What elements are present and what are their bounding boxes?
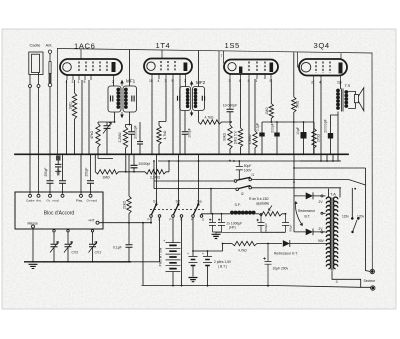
wire I2 rail right xyxy=(252,187,342,189)
tube V3 top lead riser xyxy=(223,51,226,63)
wire bottom rail xyxy=(142,285,371,287)
capacitor C8 body xyxy=(274,133,279,137)
svg-text:4: 4 xyxy=(248,79,250,83)
wire CV0 drop xyxy=(53,232,55,244)
capacitor C14 1000uF xyxy=(218,214,225,232)
tube V2 anode bar xyxy=(184,63,188,72)
wire selector drop xyxy=(351,188,353,218)
tube V1 grid electrodes xyxy=(79,62,107,73)
node dots on chassis bus xyxy=(57,153,59,155)
switch I1 mains pole 1 xyxy=(234,180,237,183)
svg-text:5: 5 xyxy=(84,80,86,84)
tube V3 diode plate bar xyxy=(239,67,242,74)
wire cadre to bloc terminals xyxy=(30,88,39,194)
svg-text:90V: 90V xyxy=(318,239,325,243)
coil TA secondary winding xyxy=(333,197,337,269)
svg-text:I1: I1 xyxy=(252,173,255,177)
svg-text:4,7kΩ: 4,7kΩ xyxy=(163,130,167,139)
wire bus drop x81 xyxy=(80,154,82,194)
loop antenna Cadre xyxy=(29,52,43,75)
capacitor C1 250pF (ant) xyxy=(47,181,54,184)
node TA tap upper xyxy=(321,195,323,197)
svg-text:100pF: 100pF xyxy=(188,128,192,138)
wire D3 to TA xyxy=(290,243,331,245)
capacitor C2 xyxy=(131,125,133,132)
MF2 tuning arrow bottom xyxy=(191,111,193,115)
capacitor C16 0.1uF xyxy=(128,223,130,245)
tube V3 1S5 envelope xyxy=(224,60,278,75)
wire V2 grid elbow xyxy=(159,122,166,126)
svg-text:1MΩ T.V.: 1MΩ T.V. xyxy=(233,131,237,145)
svg-text:mod.: mod. xyxy=(53,199,60,203)
node cadre lead junction circles xyxy=(29,85,32,88)
svg-text:Piles HT 90v: Piles HT 90v xyxy=(159,247,163,266)
tube V4 top lead riser xyxy=(298,52,300,67)
speaker LS driver xyxy=(354,95,358,103)
capacitor C10 body xyxy=(328,133,333,139)
node dots on mains rail xyxy=(210,188,212,190)
tube V2 filament circle xyxy=(147,62,155,70)
plus mark C13 xyxy=(209,219,211,221)
node TA tap lower xyxy=(321,231,323,233)
svg-text:100V: 100V xyxy=(244,168,253,172)
wire V4 pin drops xyxy=(314,80,321,161)
svg-text:+: + xyxy=(187,252,189,256)
node TA tap mid xyxy=(321,212,323,214)
svg-text:10μF: 10μF xyxy=(296,127,300,135)
TS core lines xyxy=(342,89,344,112)
wire MF2 primary bottom xyxy=(184,111,186,132)
wire C12 ground tie xyxy=(261,231,286,233)
coil MF2 secondary winding xyxy=(194,88,198,92)
svg-text:+: + xyxy=(202,252,204,256)
tube V4 filament circle xyxy=(301,62,311,72)
diode D2 BT lower xyxy=(294,229,321,236)
wire MF1 secondary riser to bus xyxy=(129,50,131,86)
capacitor C3 50pF xyxy=(59,181,66,184)
node secteur terminal bottom xyxy=(371,286,375,290)
svg-text:Plaq.: Plaq. xyxy=(76,199,83,203)
wire V3 pin1 drop xyxy=(254,79,256,131)
svg-text:1MΩ: 1MΩ xyxy=(69,102,73,110)
svg-text:1MΩ: 1MΩ xyxy=(265,107,269,115)
wire V4 anode to TS xyxy=(340,80,342,89)
tube V4 pin stubs xyxy=(314,76,341,81)
svg-text:33kΩ: 33kΩ xyxy=(223,133,227,141)
wire chassis bus xyxy=(15,153,348,155)
svg-text:T.A: T.A xyxy=(330,192,336,197)
svg-text:0: 0 xyxy=(336,280,338,284)
wire screen feed drop x219 xyxy=(218,51,220,155)
svg-text:2: 2 xyxy=(184,79,186,83)
svg-text:2,1MΩ: 2,1MΩ xyxy=(150,175,161,179)
svg-text:( B.T.): ( B.T.) xyxy=(218,265,227,269)
resistor R15 1M xyxy=(95,170,145,174)
capacitor C5 100pF xyxy=(182,132,189,135)
capacitor C13 1000uF xyxy=(209,214,216,232)
svg-text:5MΩ: 5MΩ xyxy=(296,100,300,108)
wire +HT rail xyxy=(99,222,152,224)
svg-text:P: P xyxy=(170,218,172,222)
coil MF1 secondary winding xyxy=(124,88,128,92)
svg-text:0,1μF: 0,1μF xyxy=(113,246,122,250)
tube V3 anode bar xyxy=(270,63,274,73)
ground symbol piles xyxy=(189,278,198,282)
wire TS bottom drop xyxy=(337,112,339,162)
wire left bus drop xyxy=(57,49,59,155)
switch Sa xyxy=(192,215,195,218)
svg-text:1AC6: 1AC6 xyxy=(74,42,95,51)
wire masse to ground bus xyxy=(32,228,34,262)
svg-text:22kΩ: 22kΩ xyxy=(122,201,126,209)
svg-text:CV1: CV1 xyxy=(95,251,102,255)
svg-text:Redresseur: Redresseur xyxy=(298,209,316,213)
wire bus drop to C1 xyxy=(49,179,51,181)
wire V3 pin6 drop xyxy=(240,79,242,128)
svg-text:6: 6 xyxy=(239,79,241,83)
svg-text:4,7kΩ: 4,7kΩ xyxy=(238,249,247,253)
wire S2-P to battery xyxy=(172,217,174,243)
svg-text:20000pF: 20000pF xyxy=(324,119,328,132)
tube V1 anode bar xyxy=(112,62,116,72)
coil MF2 primary winding xyxy=(186,88,190,92)
capacitor MF1 primary trim xyxy=(111,96,113,102)
wire SF rail left xyxy=(211,213,230,215)
wire bridge left rail xyxy=(293,182,295,232)
resistor R2 47k xyxy=(96,122,100,154)
coil MF1 primary winding xyxy=(116,88,120,92)
wire I1 rail left xyxy=(154,180,234,182)
resistor R14 2.1M xyxy=(145,170,169,174)
svg-text:7: 7 xyxy=(221,54,223,58)
wire HT rail y168 xyxy=(294,167,366,169)
wire Sa riser xyxy=(198,154,200,204)
wire Sa-P drop xyxy=(192,217,194,251)
svg-text:CV2: CV2 xyxy=(72,251,79,255)
wire cadre leads xyxy=(30,73,39,85)
resistor R12 4.7k xyxy=(232,241,282,245)
resistor R11 270 xyxy=(312,122,316,154)
svg-text:50μF: 50μF xyxy=(289,224,293,231)
svg-text:S: S xyxy=(202,218,204,222)
svg-text:270Ω: 270Ω xyxy=(317,133,321,142)
svg-text:P: P xyxy=(148,218,150,222)
tube V2 pin stubs xyxy=(152,74,186,79)
wire HT drop right xyxy=(366,168,371,272)
MF1 tuning arrow top xyxy=(121,82,123,87)
transformer MF1 secondary box xyxy=(123,86,137,112)
node CV drop circles xyxy=(53,230,55,232)
wire V3 pin4 drop xyxy=(248,79,250,154)
node dots misc xyxy=(125,171,127,173)
svg-text:Ant.: Ant. xyxy=(46,43,53,48)
svg-text:+HT: +HT xyxy=(88,219,96,223)
wire +HT drop left xyxy=(142,223,144,286)
tube V4 grid electrodes xyxy=(316,62,330,74)
svg-text:Masse: Masse xyxy=(28,222,38,226)
wire stub arrow xyxy=(98,154,113,158)
wire TA primary riser xyxy=(329,188,341,198)
svg-text:Bloc d'Accord: Bloc d'Accord xyxy=(44,211,75,217)
capacitor C10 20000pF xyxy=(331,115,339,154)
wire MF1 secondary bottom xyxy=(126,112,132,125)
transformer MF2 secondary box xyxy=(193,87,205,111)
svg-text:MF2: MF2 xyxy=(196,80,206,85)
wire bridge arc indicator xyxy=(295,202,303,226)
wire ground bus xyxy=(24,261,131,263)
wire ant down to C1 xyxy=(49,87,51,181)
svg-text:Ant.: Ant. xyxy=(36,199,42,203)
svg-text:2: 2 xyxy=(112,80,114,84)
wire C7 drop xyxy=(261,122,263,133)
capacitor CV0 trimmer xyxy=(51,244,58,247)
svg-text:Gr-mod: Gr-mod xyxy=(87,199,98,203)
transformer MF1 primary box xyxy=(108,86,121,112)
svg-text:ajustable: ajustable xyxy=(256,202,269,206)
switch S1 xyxy=(150,215,153,218)
capacitor C15 10uF 200v xyxy=(265,244,272,286)
svg-text:3: 3 xyxy=(229,79,231,83)
wire coupling rail y122 xyxy=(262,121,314,123)
wire V2 pin drops xyxy=(152,79,180,154)
wire V1 pin drops xyxy=(67,80,90,154)
plus mark C14 xyxy=(218,219,220,221)
wire TS to speaker top xyxy=(348,91,355,94)
wire MF2 secondary bottom xyxy=(198,111,200,123)
wire bus drop x294 below bus xyxy=(293,154,295,181)
wire S1-G drop xyxy=(131,217,160,261)
capacitor MF1 secondary trim xyxy=(132,96,134,102)
wire mains feed drop x154 xyxy=(153,161,155,189)
tube V3 filament circle xyxy=(228,63,236,71)
svg-text:200pF: 200pF xyxy=(271,123,275,133)
wire R14 up to rail xyxy=(168,161,170,172)
svg-text:Redresseur H.T.: Redresseur H.T. xyxy=(274,252,298,256)
wire V1 anode to MF1 xyxy=(113,80,115,86)
resistor R1 1M xyxy=(72,93,76,119)
wire drop x125.8 xyxy=(125,154,127,172)
plus mark C15 xyxy=(263,257,265,259)
svg-text:Cadre: Cadre xyxy=(26,199,35,203)
plus mark C18 xyxy=(229,160,231,162)
tube V4 anode bar xyxy=(339,63,343,74)
svg-text:4: 4 xyxy=(158,79,160,83)
node dots on HT row xyxy=(267,243,269,245)
capacitor C17 20000pF on drop xyxy=(133,154,135,165)
coil TS secondary winding xyxy=(344,90,348,94)
wire V1 grid drop xyxy=(74,80,76,93)
tube V1 pin stubs xyxy=(67,75,114,80)
svg-text:1: 1 xyxy=(78,80,80,84)
tube V2 top cap riser xyxy=(161,50,163,59)
node secteur terminal top xyxy=(370,269,374,273)
antenna Ant telescopic xyxy=(48,50,51,53)
svg-text:B.T.: B.T. xyxy=(305,215,311,219)
tube V3 grid electrodes xyxy=(249,62,265,73)
capacitor C11 1500uF xyxy=(216,214,265,233)
cell piles BT 1.5V right xyxy=(207,251,209,256)
node dots on heater rail xyxy=(168,160,170,162)
diode D3 HT xyxy=(289,240,291,247)
capacitor C6 10000pF xyxy=(227,109,234,112)
TA core lines xyxy=(331,198,333,271)
wire CV1 drop xyxy=(92,232,94,244)
svg-text:T.S: T.S xyxy=(345,83,351,88)
node TA tap 120V xyxy=(357,218,359,220)
svg-text:4: 4 xyxy=(319,81,321,85)
svg-text:3,3MΩ: 3,3MΩ xyxy=(248,134,252,145)
wire Radj pointer arrow xyxy=(269,206,273,211)
svg-text:4: 4 xyxy=(66,80,68,84)
svg-text:Secteur: Secteur xyxy=(364,279,377,283)
capacitor CV1 variable xyxy=(89,244,96,247)
svg-text:5: 5 xyxy=(172,79,174,83)
switch tap selector lever xyxy=(353,220,357,232)
capacitor C9 10uF drop xyxy=(303,122,305,154)
choke SF winding xyxy=(230,211,234,215)
box bloc d'accord xyxy=(15,192,103,229)
wire rail ticks xyxy=(327,154,333,161)
capacitor C9 body xyxy=(301,132,307,139)
capacitor MF2 primary trim xyxy=(178,96,180,101)
node dots on HT rail xyxy=(128,222,130,224)
capacitor C7 0.1uF xyxy=(261,137,263,155)
wire V2 anode to MF2 xyxy=(185,79,187,87)
svg-text:3: 3 xyxy=(311,81,313,85)
svg-text:115v: 115v xyxy=(342,215,349,219)
svg-text:0,1μF: 0,1μF xyxy=(256,123,260,132)
node bloc terminals top xyxy=(29,194,32,197)
wire piles feed from R12 xyxy=(208,244,223,252)
wire Sa-S to SF rail xyxy=(202,213,212,216)
transformer MF2 primary box xyxy=(180,87,191,111)
resistor R4 47k xyxy=(157,126,161,155)
svg-text:1S5: 1S5 xyxy=(225,41,240,50)
wire drop x95.3 xyxy=(94,154,96,172)
wire heater rail y161 xyxy=(158,160,341,162)
svg-text:20000pf: 20000pf xyxy=(139,162,151,166)
wire caps common to ground xyxy=(213,232,222,234)
tube V2 grid electrodes xyxy=(161,61,175,72)
wire top bus xyxy=(58,49,373,54)
tube V1 1AC6 envelope xyxy=(60,59,122,75)
wire TS to speaker bottom xyxy=(348,103,355,109)
wire V3 pin3 drop xyxy=(229,79,231,109)
capacitor MF2 secondary trim xyxy=(202,96,204,101)
wire bus drop x62.5 xyxy=(62,154,64,180)
svg-text:250pF: 250pF xyxy=(44,167,48,176)
coil TS primary winding xyxy=(336,89,340,93)
svg-text:S2: S2 xyxy=(176,200,181,204)
svg-text:20000pF: 20000pF xyxy=(134,125,138,138)
wire piles top tie xyxy=(193,250,208,252)
svg-text:10 000pF: 10 000pF xyxy=(223,104,237,108)
capacitor C4 250pF xyxy=(87,181,94,184)
capacitor bypass below bus xyxy=(57,161,59,165)
resistor R6 33k xyxy=(228,125,232,154)
speaker LS cone xyxy=(358,88,363,111)
svg-text:2,2MΩ: 2,2MΩ xyxy=(118,132,122,143)
resistor R5 4.7k xyxy=(199,120,231,124)
svg-text:S.F.: S.F. xyxy=(235,203,241,207)
node masse terminal xyxy=(32,225,35,228)
wire R12 left to piles xyxy=(223,243,233,245)
tube V4 3Q4 envelope xyxy=(299,59,347,76)
resistor Radj 5-13 ohm xyxy=(259,212,286,216)
wire rail under bus right xyxy=(300,160,340,162)
wire SF to Radj xyxy=(256,213,259,215)
battery BT1 HT 90V cells xyxy=(166,243,181,272)
resistor R8 3.3M xyxy=(253,131,257,154)
resistor R10 5M on bus drop xyxy=(292,52,296,154)
node +HT terminal xyxy=(96,221,99,224)
ground symbol masse xyxy=(29,264,38,268)
svg-text:Gr.: Gr. xyxy=(47,199,51,203)
resistor R13 22k on riser xyxy=(127,154,131,222)
svg-text:2 piles 1,5V: 2 piles 1,5V xyxy=(214,260,232,264)
svg-text:3: 3 xyxy=(165,79,167,83)
wire S1 riser xyxy=(156,154,158,204)
wire S2 riser xyxy=(178,154,180,204)
wire S1-P to +HT rail xyxy=(150,217,152,222)
tube V2 1T4 envelope xyxy=(144,59,192,75)
capacitor CV2 variable xyxy=(65,244,72,247)
svg-text:1: 1 xyxy=(256,79,258,83)
wire I1 rail right xyxy=(252,180,366,185)
tube V1 filament circle xyxy=(63,63,72,72)
resistor R7 1M xyxy=(238,128,242,154)
MF1 tuning arrow bottom xyxy=(121,112,123,117)
wire S2-G drop xyxy=(181,217,183,285)
capacitor C12 50uF xyxy=(282,214,289,233)
svg-text:1T4: 1T4 xyxy=(156,41,171,50)
ground symbol filter xyxy=(212,234,221,238)
svg-text:1MΩ: 1MΩ xyxy=(102,175,110,179)
node dots on SF rail xyxy=(212,213,214,215)
node dots on bottom rail xyxy=(172,285,174,287)
capacitor C18 50uF 100V xyxy=(236,161,243,180)
svg-text:R de 5 à 13Ω: R de 5 à 13Ω xyxy=(249,197,269,201)
svg-text:S1: S1 xyxy=(153,200,158,204)
wire V3 anode drop xyxy=(270,79,272,104)
tube V1 top cap riser xyxy=(80,49,82,59)
cell piles BT 1.5V left xyxy=(192,251,194,256)
svg-text:Cadre: Cadre xyxy=(30,43,42,48)
MF2 tuning arrow top xyxy=(191,83,193,87)
wire MF2 secondary riser to bus xyxy=(198,51,200,87)
node TA tap 115V xyxy=(351,218,353,220)
node dots on coupling rail xyxy=(276,121,278,123)
svg-text:120v: 120v xyxy=(357,215,365,219)
svg-text:50pF: 50pF xyxy=(56,168,60,175)
wire battery bottom xyxy=(172,272,174,286)
wire rail I1 feed riser xyxy=(210,189,212,214)
switch I2 mains pole 2 xyxy=(236,188,239,191)
svg-text:3Q4: 3Q4 xyxy=(314,41,330,50)
svg-text:47kΩ: 47kΩ xyxy=(90,131,94,139)
wire MF1 primary bottom xyxy=(98,112,115,122)
svg-text:4,7kΩ: 4,7kΩ xyxy=(205,116,214,120)
svg-text:MF1: MF1 xyxy=(126,79,136,84)
svg-text:10μF 200v: 10μF 200v xyxy=(273,267,289,271)
capacitor C7 body xyxy=(259,133,264,137)
capacitor C19 20000pF grid xyxy=(139,122,141,141)
svg-text:15: 15 xyxy=(149,79,153,83)
resistor R9 1M xyxy=(269,104,273,123)
svg-text:I2: I2 xyxy=(241,192,244,196)
svg-text:2|6: 2|6 xyxy=(337,81,342,85)
switch S2 xyxy=(172,215,175,218)
